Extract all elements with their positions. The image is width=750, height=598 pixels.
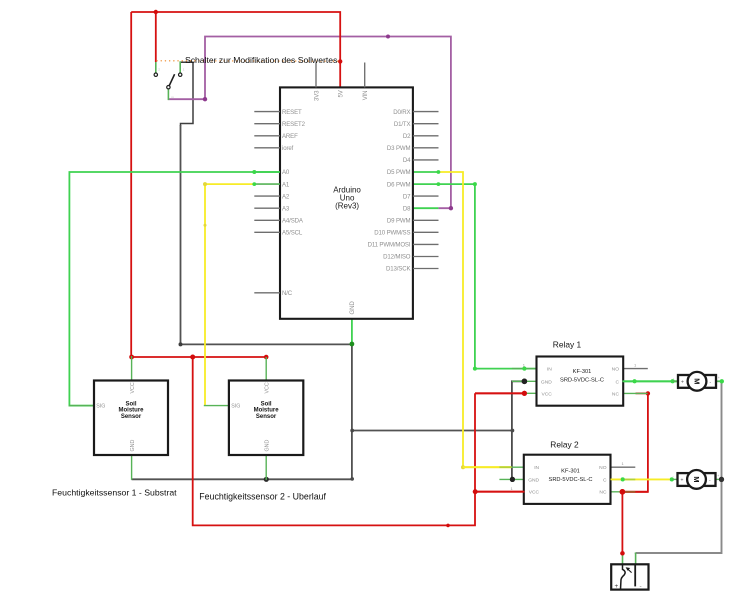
- svg-text:VCC: VCC: [541, 391, 552, 397]
- svg-text:Relay 2: Relay 2: [550, 439, 579, 449]
- svg-text:A3: A3: [282, 205, 290, 212]
- svg-text:Schalter zur Modifikation des: Schalter zur Modifikation des Sollwertes: [185, 55, 337, 65]
- svg-text:D9 PWM: D9 PWM: [387, 218, 411, 225]
- svg-text:M: M: [692, 378, 701, 384]
- svg-text:D12/MISO: D12/MISO: [383, 254, 411, 261]
- svg-text:KF-301: KF-301: [561, 468, 580, 474]
- svg-text:D2: D2: [403, 133, 411, 140]
- svg-text:IN: IN: [547, 367, 552, 373]
- svg-text:C: C: [615, 379, 619, 385]
- svg-text:Sensor: Sensor: [256, 414, 277, 420]
- svg-text:D0/RX: D0/RX: [393, 109, 410, 116]
- svg-text:+: +: [615, 583, 619, 590]
- svg-text:Feuchtigkeitssensor 1 - Substr: Feuchtigkeitssensor 1 - Substrat: [52, 488, 177, 498]
- svg-text:+: +: [717, 474, 719, 478]
- svg-text:(Rev3): (Rev3): [335, 201, 359, 210]
- svg-text:Moisture: Moisture: [118, 408, 144, 414]
- svg-text:AREF: AREF: [282, 133, 298, 140]
- svg-text:GND: GND: [130, 440, 136, 452]
- svg-text:RESET: RESET: [282, 109, 302, 116]
- svg-text:D11 PWM/MOSI: D11 PWM/MOSI: [368, 242, 411, 249]
- svg-text:+: +: [681, 379, 684, 385]
- svg-text:KF-301: KF-301: [573, 369, 592, 375]
- svg-text:Relay 1: Relay 1: [553, 340, 582, 350]
- svg-text:VCC: VCC: [264, 382, 270, 393]
- svg-text:A2: A2: [282, 193, 290, 200]
- svg-text:+: +: [681, 477, 684, 483]
- svg-text:NC: NC: [612, 391, 620, 397]
- svg-text:SRD-5VDC-SL-C: SRD-5VDC-SL-C: [560, 378, 604, 384]
- svg-text:5V: 5V: [337, 89, 344, 97]
- svg-text:VCC: VCC: [529, 490, 540, 496]
- svg-text:Soil: Soil: [261, 402, 272, 408]
- svg-text:GND: GND: [528, 477, 539, 483]
- svg-text:D6 PWM: D6 PWM: [387, 181, 411, 188]
- svg-text:-: -: [640, 583, 642, 590]
- svg-text:+: +: [718, 376, 720, 380]
- svg-text:D4: D4: [403, 157, 411, 164]
- svg-text:GND: GND: [264, 440, 270, 452]
- svg-text:SRD-5VDC-SL-C: SRD-5VDC-SL-C: [549, 477, 593, 483]
- svg-text:C: C: [603, 477, 607, 483]
- svg-text:A5/SCL: A5/SCL: [282, 230, 303, 237]
- svg-text:NO: NO: [599, 465, 607, 471]
- svg-text:N/C: N/C: [282, 290, 293, 297]
- svg-text:A1: A1: [282, 181, 290, 188]
- svg-text:Soil: Soil: [125, 402, 136, 408]
- svg-text:3V3: 3V3: [313, 90, 320, 101]
- svg-text:Feuchtigkeitssensor 2 - Uberla: Feuchtigkeitssensor 2 - Uberlauf: [199, 491, 326, 501]
- svg-text:A0: A0: [282, 169, 290, 176]
- svg-text:VIN: VIN: [362, 91, 369, 101]
- svg-text:D1/TX: D1/TX: [394, 121, 411, 128]
- svg-text:NC: NC: [599, 490, 607, 496]
- svg-text:GND: GND: [541, 379, 552, 385]
- svg-text:RESET2: RESET2: [282, 121, 306, 128]
- svg-text:D7: D7: [403, 193, 411, 200]
- svg-text:A4/SDA: A4/SDA: [282, 218, 304, 225]
- svg-text:IN: IN: [534, 465, 539, 471]
- svg-text:Sensor: Sensor: [121, 414, 142, 420]
- svg-text:ioref: ioref: [282, 145, 294, 152]
- svg-text:D5 PWM: D5 PWM: [387, 169, 411, 176]
- svg-text:D3 PWM: D3 PWM: [387, 145, 411, 152]
- svg-text:SIG: SIG: [96, 403, 105, 409]
- svg-text:NO: NO: [612, 367, 620, 373]
- svg-text:M: M: [692, 476, 701, 482]
- svg-text:GND: GND: [349, 301, 356, 315]
- svg-text:D10 PWM/SS: D10 PWM/SS: [374, 230, 410, 237]
- svg-text:D8: D8: [403, 205, 411, 212]
- svg-text:VCC: VCC: [130, 382, 136, 393]
- svg-text:D13/SCK: D13/SCK: [386, 266, 410, 273]
- svg-text:SIG: SIG: [231, 403, 240, 409]
- svg-text:Moisture: Moisture: [254, 408, 280, 414]
